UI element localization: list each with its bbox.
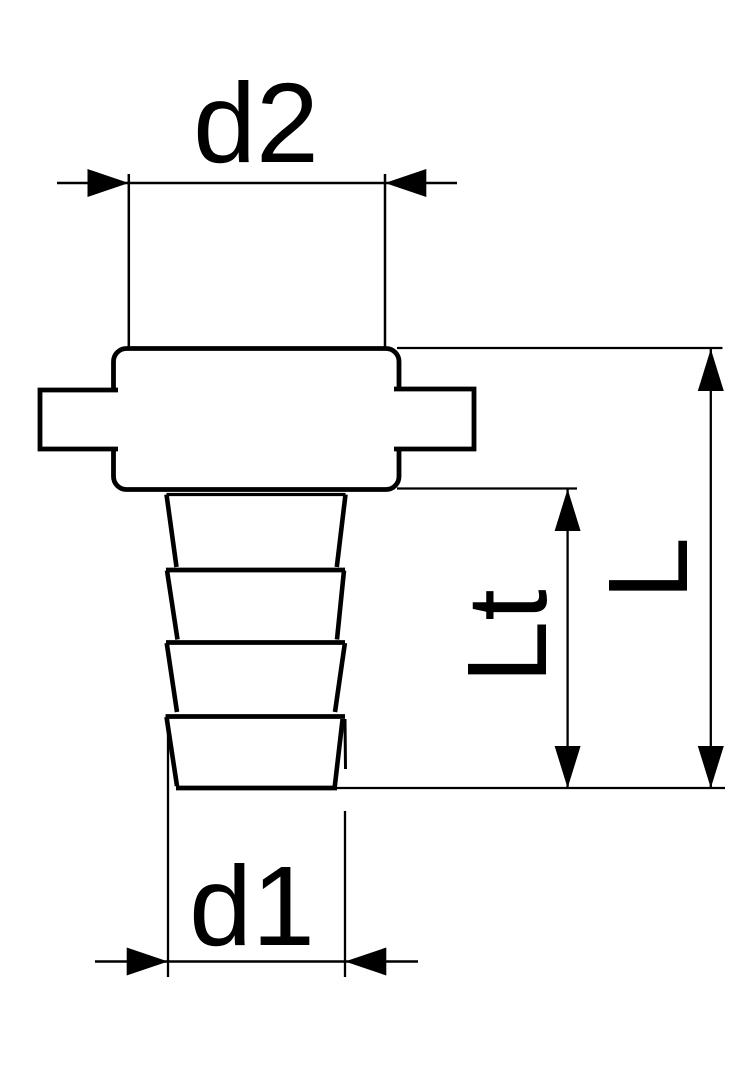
barb ridge 2 <box>166 568 345 573</box>
barb inner edge tick right <box>344 719 348 769</box>
d2 arrowhead left <box>88 169 129 197</box>
left wrench tab <box>40 390 118 449</box>
L dimension line <box>710 349 712 788</box>
L arrowhead up <box>698 349 724 391</box>
barb bottom edge <box>176 786 337 791</box>
d1 arrowhead left <box>127 948 168 976</box>
L arrowhead down <box>698 746 724 788</box>
Lt dimension line <box>566 489 568 788</box>
L dimension top extension line <box>397 347 723 349</box>
barb ridge 4 <box>166 714 346 719</box>
d2 extension line left <box>128 174 131 350</box>
fitting body (nut) <box>114 349 400 490</box>
barb ridge 3 <box>166 640 345 645</box>
L/Lt bottom extension line <box>330 787 725 789</box>
barb segment 1 right edge <box>337 495 346 568</box>
d1 extension line right <box>344 811 346 977</box>
barb segment 3 left edge <box>167 643 177 712</box>
d1 arrowhead right <box>345 948 386 976</box>
svg-text:Lt: Lt <box>444 589 570 683</box>
svg-text:d2: d2 <box>193 60 319 186</box>
barb segment 4 left edge <box>167 717 178 786</box>
barb segment 2 left edge <box>167 571 178 640</box>
right wrench tab <box>394 389 474 449</box>
barb segment 2 right edge <box>337 571 344 640</box>
svg-text:L: L <box>585 537 711 600</box>
d2 extension line right <box>384 174 387 350</box>
barb segment 1 left edge <box>167 495 177 568</box>
Lt dimension top extension line <box>397 487 577 489</box>
svg-text:d1: d1 <box>189 843 315 969</box>
dimension line d1 <box>95 960 418 963</box>
Lt arrowhead down <box>555 746 581 788</box>
barb top edge <box>167 493 346 496</box>
barb segment 4 right edge <box>335 719 343 787</box>
dimension line d2 <box>57 182 457 185</box>
Lt arrowhead up <box>555 489 581 531</box>
d1 extension line left <box>167 719 169 977</box>
barb segment 3 right edge <box>335 643 345 712</box>
d2 arrowhead right <box>385 169 426 197</box>
